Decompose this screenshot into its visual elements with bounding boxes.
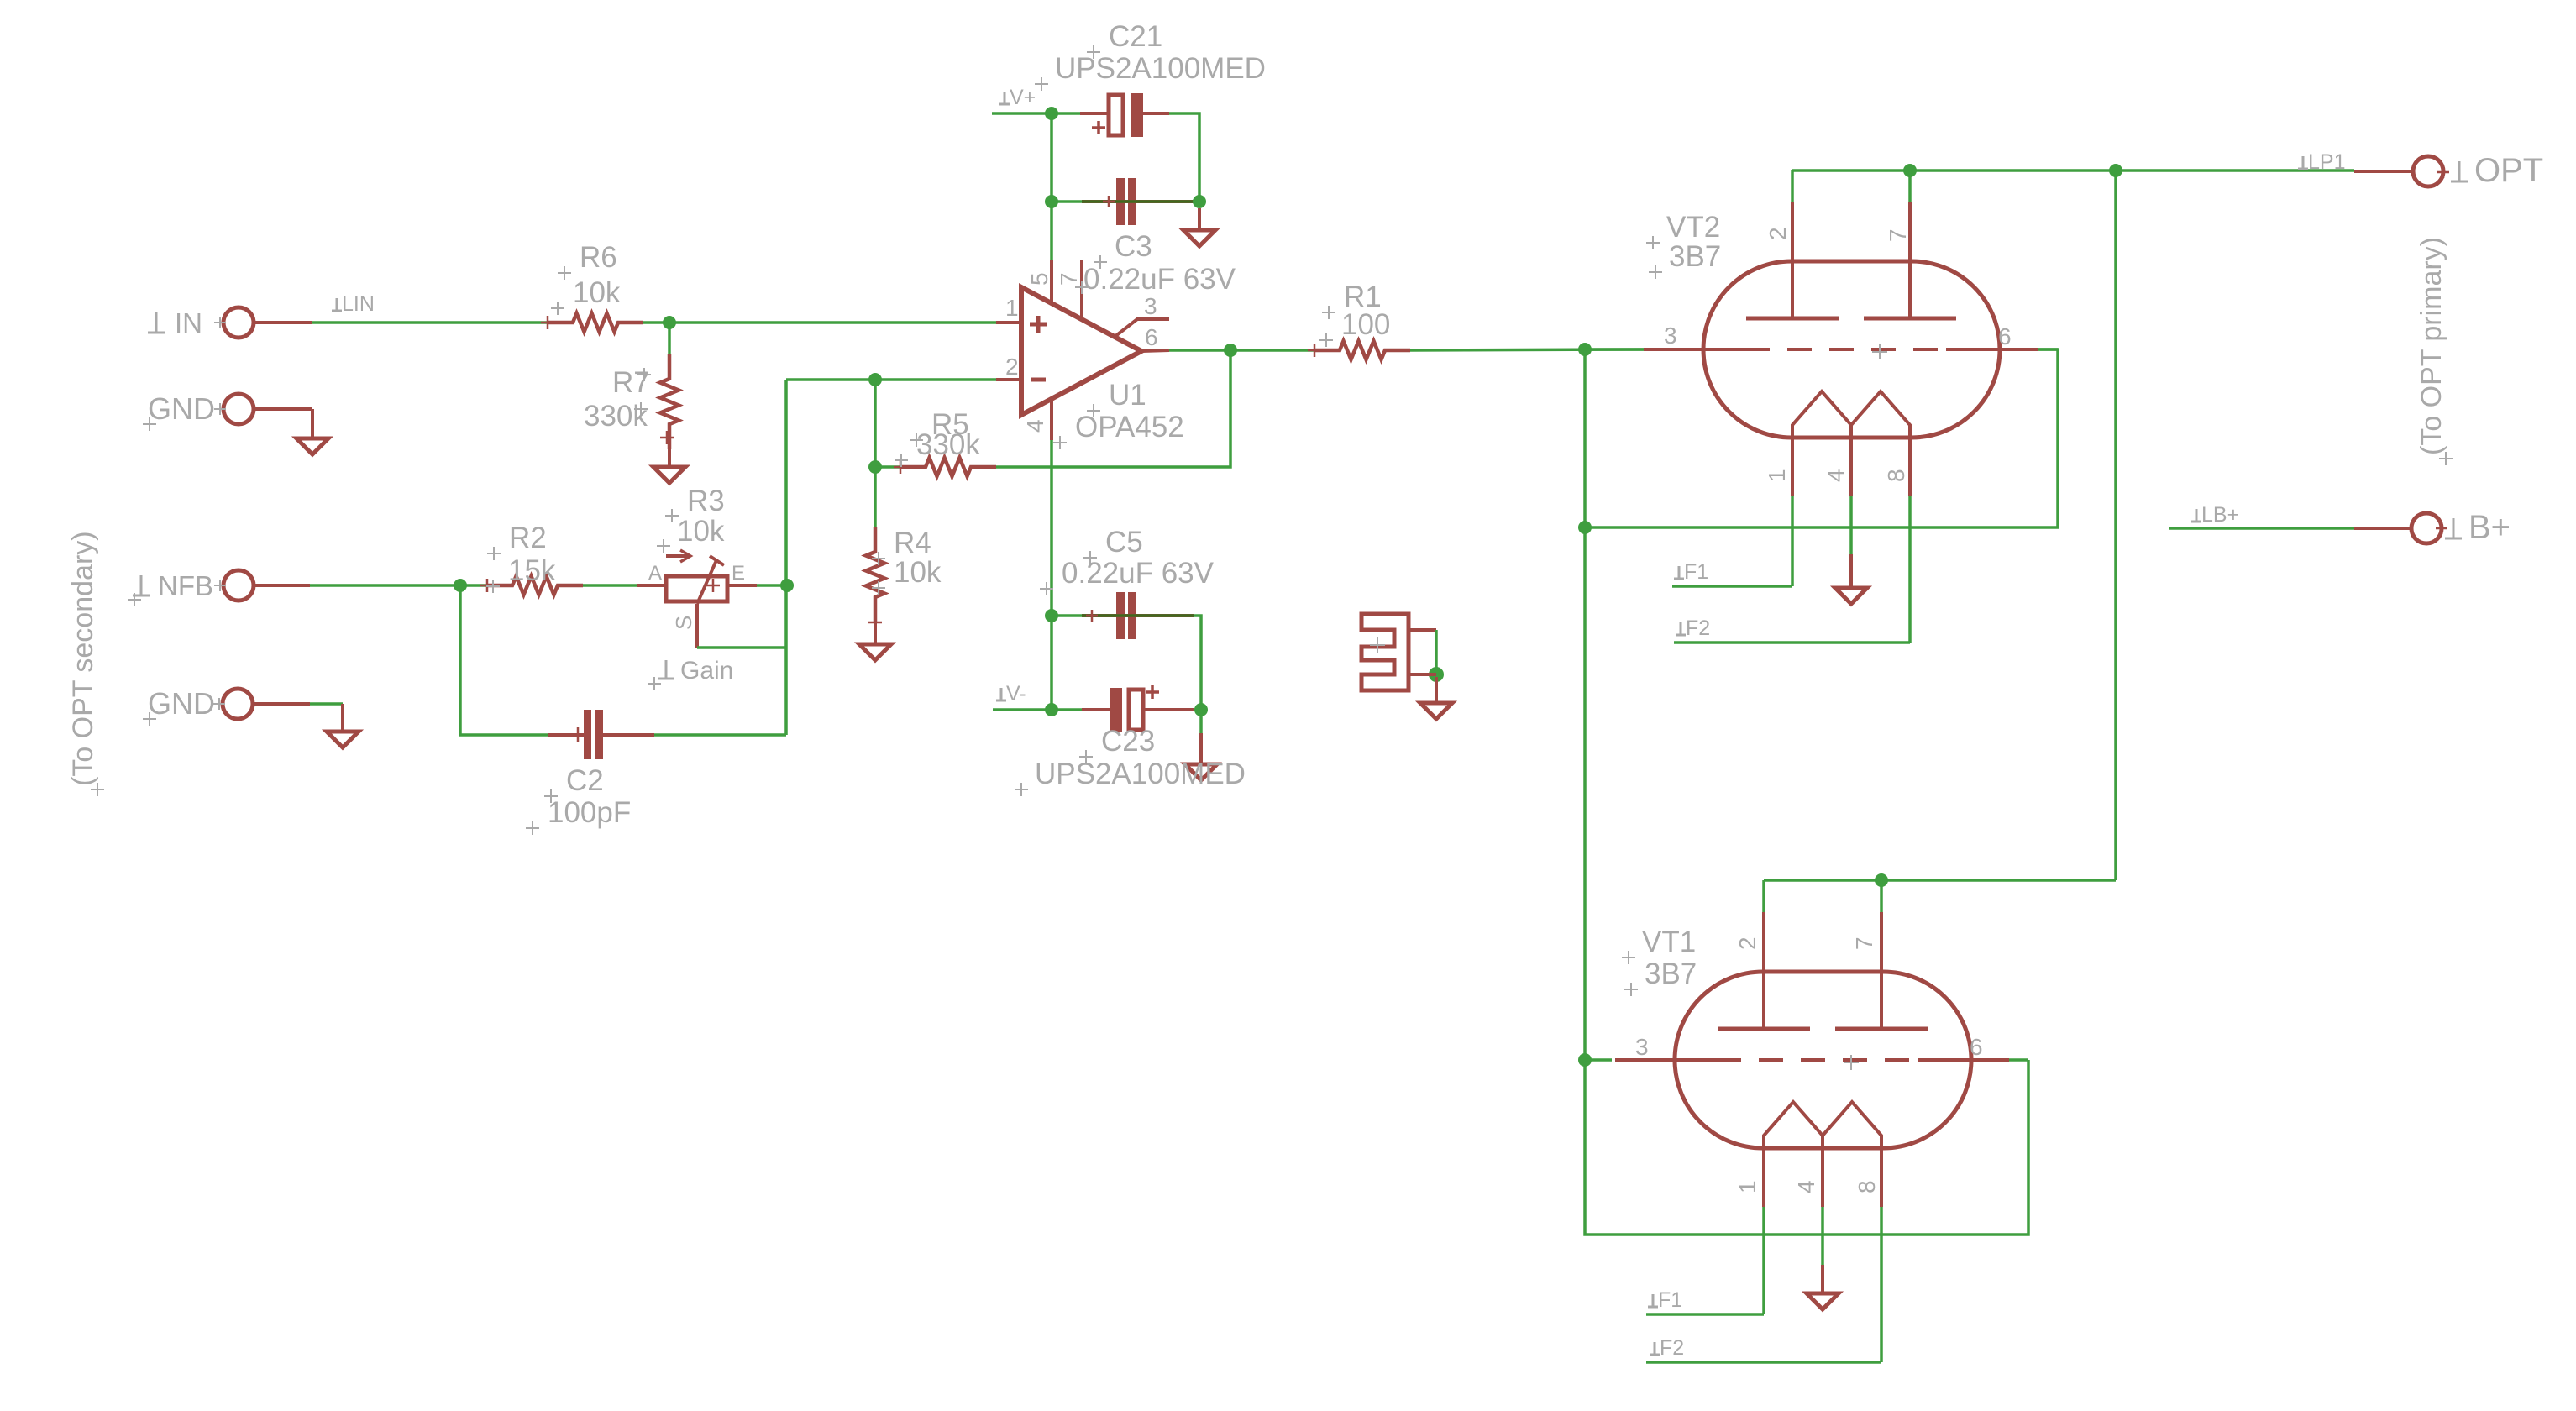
svg-text:R4: R4 [894,527,931,559]
svg-text:OPA452: OPA452 [1075,411,1184,443]
svg-text:F1: F1 [1684,560,1708,584]
svg-text:7: 7 [1056,272,1082,286]
svg-text:3: 3 [1144,293,1157,319]
svg-text:6: 6 [1145,324,1158,350]
svg-text:8: 8 [1854,1180,1880,1193]
svg-text:8: 8 [1883,469,1909,482]
svg-text:B+: B+ [2468,509,2510,546]
svg-text:7: 7 [1885,228,1911,242]
svg-text:E: E [732,562,745,585]
svg-text:OPT: OPT [2474,152,2543,189]
svg-text:LP1: LP1 [2308,150,2345,174]
svg-text:1: 1 [1764,469,1790,482]
svg-text:V-: V- [1006,682,1026,705]
svg-text:C2: C2 [566,764,604,797]
svg-text:0.22uF 63V: 0.22uF 63V [1062,557,1215,590]
svg-text:6: 6 [1970,1034,1983,1060]
svg-text:V+: V+ [1010,86,1036,109]
svg-text:IN: IN [175,307,202,338]
svg-text:UPS2A100MED: UPS2A100MED [1035,758,1246,790]
svg-text:15k: 15k [508,554,556,587]
svg-text:S: S [671,616,696,630]
svg-text:2: 2 [1734,936,1760,950]
svg-text:GND: GND [148,686,215,721]
svg-text:C23: C23 [1101,725,1155,758]
svg-text:3: 3 [1664,323,1677,349]
svg-text:(To OPT primary): (To OPT primary) [2416,237,2447,455]
svg-text:LB+: LB+ [2201,503,2239,527]
svg-text:Gain: Gain [680,657,733,685]
svg-text:C3: C3 [1115,230,1152,263]
svg-text:3B7: 3B7 [1669,240,1721,273]
svg-text:VT1: VT1 [1642,926,1696,958]
svg-text:4: 4 [1022,419,1048,433]
svg-text:F1: F1 [1658,1288,1682,1312]
svg-text:100: 100 [1341,308,1390,341]
svg-text:7: 7 [1851,936,1877,950]
svg-text:UPS2A100MED: UPS2A100MED [1055,52,1266,85]
svg-text:R2: R2 [509,522,547,554]
svg-text:C5: C5 [1105,526,1143,559]
svg-text:3B7: 3B7 [1645,957,1697,990]
svg-text:R3: R3 [687,485,725,517]
svg-text:2: 2 [1765,227,1791,240]
svg-text:10k: 10k [573,276,621,309]
svg-text:2: 2 [1005,354,1019,380]
svg-text:6: 6 [1998,323,2012,349]
svg-text:4: 4 [1793,1180,1819,1193]
svg-text:10k: 10k [894,556,942,589]
svg-text:NFB: NFB [158,570,213,601]
svg-text:1: 1 [1734,1180,1760,1193]
svg-text:10k: 10k [677,515,725,548]
svg-text:A: A [648,562,662,585]
svg-text:4: 4 [1823,469,1849,482]
svg-text:C21: C21 [1109,20,1162,53]
svg-text:100pF: 100pF [548,796,631,829]
svg-text:U1: U1 [1109,379,1146,412]
svg-text:GND: GND [148,391,215,426]
svg-text:0.22uF 63V: 0.22uF 63V [1083,263,1236,296]
svg-text:5: 5 [1026,272,1052,286]
svg-text:VT2: VT2 [1666,211,1720,244]
svg-text:3: 3 [1635,1034,1649,1060]
svg-text:F2: F2 [1660,1336,1684,1360]
svg-text:F2: F2 [1686,616,1710,640]
svg-text:(To OPT secondary): (To OPT secondary) [67,531,99,786]
svg-text:330k: 330k [584,400,648,433]
svg-text:LIN: LIN [342,292,375,316]
svg-text:330k: 330k [916,428,980,461]
svg-text:1: 1 [1005,295,1019,321]
svg-text:R6: R6 [580,241,617,274]
